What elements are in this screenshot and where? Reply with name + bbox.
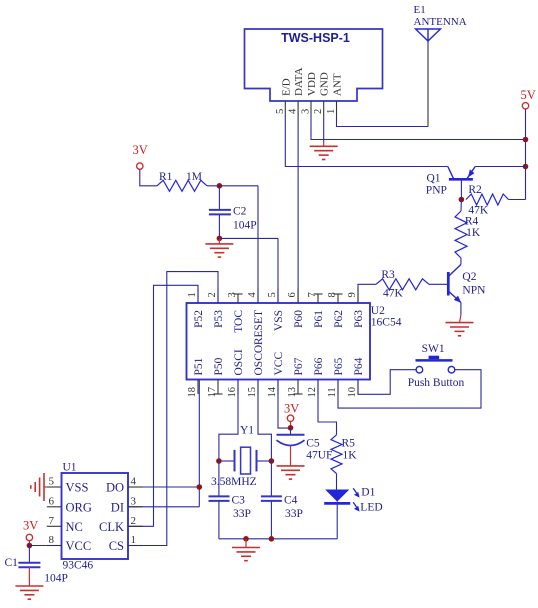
U2 pin 18 stub	[197, 380, 199, 395]
TWS pin number 2	[313, 109, 324, 114]
U2 pin 13 number	[287, 387, 298, 398]
svg-text:3V: 3V	[133, 143, 148, 157]
resistor R1 value	[186, 171, 202, 183]
wire U2 OSCI to crystal	[219, 380, 238, 462]
wire Q1 base down	[460, 179, 462, 199]
U2 pin 2 name P53	[213, 310, 225, 328]
U2 pin 13 stub	[294, 380, 303, 395]
svg-text:4: 4	[288, 108, 299, 114]
svg-text:4: 4	[131, 476, 137, 488]
ground at C5	[277, 466, 305, 479]
TWS pin 1 stub	[336, 101, 338, 118]
junction rail ground	[243, 536, 249, 542]
svg-text:33P: 33P	[233, 508, 251, 520]
svg-text:18: 18	[187, 387, 198, 398]
U2 pin 4 stub	[257, 289, 259, 304]
wire R4 to Q2 collector	[460, 258, 462, 265]
svg-text:7: 7	[307, 292, 318, 297]
wire E/D to Q1 collector	[285, 118, 448, 167]
U1 pin name CLK	[99, 520, 124, 534]
svg-text:Q2: Q2	[462, 271, 476, 283]
svg-text:9: 9	[347, 292, 358, 297]
U1 pin name CS	[109, 539, 124, 553]
wire bottom rail	[219, 538, 337, 540]
wire U2 P63 to R3	[358, 284, 376, 303]
svg-text:47UF: 47UF	[306, 450, 332, 462]
TWS pin number 1	[326, 109, 337, 114]
U1 pin 6 ORG stub	[47, 506, 62, 508]
TWS pin number 3	[301, 109, 312, 114]
IC U1 part number	[63, 560, 94, 572]
power 5V label	[521, 88, 536, 102]
U2 pin 16 stub	[237, 380, 239, 395]
wire R3 to Q2 base	[429, 283, 448, 285]
wire Q2 emitter down	[460, 303, 461, 323]
wire 3V to R1	[140, 169, 157, 186]
U2 pin 18 number	[187, 387, 198, 398]
U2 pin 12 stub	[317, 380, 319, 395]
wire 3V circle to node2	[28, 541, 30, 543]
wire U2 P64 to SW1	[358, 370, 416, 395]
TWS pin number 5	[275, 109, 286, 114]
svg-text:47K: 47K	[383, 288, 404, 300]
U2 pin 10 stub	[357, 380, 359, 395]
TWS pin 4 stub	[297, 101, 299, 118]
TWS pin 2 stub	[323, 101, 325, 118]
resistor R1 zigzag	[157, 180, 207, 191]
wire VDD to 5V rail	[311, 118, 526, 140]
junction crystal left	[216, 458, 222, 464]
svg-text:3.58MHZ: 3.58MHZ	[211, 476, 257, 488]
antenna E1 label	[414, 16, 467, 28]
svg-text:DATA: DATA	[293, 67, 305, 96]
wire U1 DO	[128, 486, 199, 488]
svg-text:104P: 104P	[233, 220, 257, 232]
IC U2 designator	[371, 305, 385, 317]
TWS pin 5 stub	[284, 101, 286, 118]
svg-text:5: 5	[267, 292, 278, 297]
svg-text:ORG: ORG	[66, 500, 92, 514]
ground at U1 VSS	[31, 473, 47, 501]
U1 pin 5 number	[49, 476, 55, 488]
U1 pin name DO	[106, 481, 124, 495]
U2 pin 12 number	[307, 387, 318, 398]
svg-text:U2: U2	[371, 305, 385, 317]
svg-text:C2: C2	[233, 206, 247, 218]
resistor R2 value	[468, 205, 489, 217]
svg-text:2: 2	[207, 292, 218, 297]
svg-text:SW1: SW1	[422, 343, 445, 355]
U2 pin 6 name P60	[293, 310, 305, 328]
svg-text:R4: R4	[465, 216, 479, 228]
svg-text:R5: R5	[342, 438, 356, 450]
svg-text:E1: E1	[414, 4, 426, 16]
U1 pin name ORG	[66, 500, 92, 514]
svg-text:ANTENNA: ANTENNA	[414, 16, 467, 28]
wire 5V rail	[525, 109, 527, 200]
svg-text:P53: P53	[213, 310, 225, 328]
capacitor C5 polarized	[277, 428, 305, 466]
svg-text:P50: P50	[213, 357, 225, 375]
junction C2 ground VSS	[217, 236, 223, 242]
svg-text:R1: R1	[159, 171, 173, 183]
svg-text:P64: P64	[353, 357, 365, 375]
TWS pin name E/D	[280, 78, 292, 96]
U2 pin 4 name RESET	[253, 310, 265, 345]
U2 pin 10 number	[347, 387, 358, 398]
wire U1 DI	[128, 506, 199, 508]
svg-text:CLK: CLK	[99, 520, 124, 534]
RF module label TWS-HSP-1	[281, 31, 350, 45]
crystal Y1 symbol	[219, 447, 272, 474]
wire R1 to RESET	[207, 186, 258, 303]
U2 pin 17 name P50	[213, 357, 225, 375]
capacitor C1 designator	[5, 557, 19, 569]
resistor R3 zigzag	[376, 279, 429, 290]
svg-text:VCC: VCC	[66, 539, 92, 553]
svg-text:7: 7	[49, 515, 55, 527]
IC U2 part number	[371, 316, 402, 328]
svg-text:R2: R2	[468, 184, 482, 196]
transistor Q1 type	[426, 185, 447, 197]
svg-text:8: 8	[49, 534, 55, 546]
svg-text:5V: 5V	[521, 88, 536, 102]
U1 pin 2 number	[131, 515, 137, 527]
svg-text:TWS-HSP-1: TWS-HSP-1	[281, 31, 350, 45]
capacitor C2 designator	[233, 206, 247, 218]
U2 pin 1 stub	[197, 289, 199, 304]
capacitor C1	[18, 546, 40, 587]
U1 pin 4 DO stub	[128, 486, 143, 488]
svg-text:3: 3	[227, 292, 238, 297]
U2 pin 16 number	[227, 387, 238, 398]
wire Q1 emitter to 5V	[475, 166, 525, 168]
svg-text:15: 15	[247, 387, 258, 398]
svg-text:OSCO: OSCO	[253, 345, 265, 376]
svg-text:P65: P65	[333, 357, 345, 375]
power 3V circle bottom	[26, 534, 32, 540]
antenna E1 symbol	[416, 29, 441, 41]
svg-text:VSS: VSS	[273, 310, 285, 331]
wire R2 to 5V rail	[509, 199, 526, 201]
U1 pin 6 number	[49, 495, 55, 507]
svg-text:P51: P51	[193, 357, 205, 375]
U2 pin 6 number	[287, 292, 298, 297]
resistor R5 designator	[342, 438, 356, 450]
power 5V circle	[522, 103, 528, 109]
resistor R1 designator	[159, 171, 173, 183]
capacitor C2	[209, 186, 231, 239]
U1 pin 8 number	[49, 534, 55, 546]
transistor Q2 designator	[462, 271, 476, 283]
svg-text:93C46: 93C46	[63, 560, 94, 572]
U2 pin 7 name P61	[313, 310, 325, 328]
U2 pin 17 number	[207, 387, 218, 398]
U2 pin 7 stub	[314, 294, 323, 303]
U2 pin 4 number	[247, 292, 258, 298]
U2 pin 15 number	[247, 387, 258, 398]
wire U2 P51 DO DI	[198, 380, 200, 507]
resistor R5 zigzag	[331, 435, 342, 474]
svg-text:1K: 1K	[466, 227, 481, 239]
power 3V label mid	[284, 402, 299, 416]
U2 pin 1 name P52	[193, 310, 205, 328]
svg-text:11: 11	[327, 387, 338, 397]
svg-text:DI: DI	[111, 500, 124, 514]
svg-text:E/D: E/D	[280, 78, 292, 96]
U2 pin 3 stub	[234, 294, 243, 303]
wire U2 OSCO to crystal	[258, 380, 271, 462]
U2 pin 5 stub	[277, 289, 279, 304]
wire U2 VCC to 3V	[278, 380, 291, 429]
U2 pin 2 number	[207, 292, 218, 297]
junction 5V-emitter	[523, 164, 529, 170]
junction rail C4	[269, 536, 275, 542]
svg-text:10: 10	[347, 387, 358, 398]
wire ANT to antenna	[337, 118, 429, 127]
crystal Y1 designator	[240, 425, 254, 437]
junction 5V-VDD	[523, 137, 529, 143]
svg-text:C1: C1	[5, 557, 19, 569]
transistor Q2 body	[448, 265, 461, 303]
svg-text:P66: P66	[313, 357, 325, 375]
junction Q1 base R2 R4	[459, 197, 465, 203]
wire 3V circle to node	[290, 422, 292, 426]
resistor R4 zigzag	[455, 200, 467, 259]
svg-text:D1: D1	[361, 487, 375, 499]
svg-text:16C54: 16C54	[371, 316, 402, 328]
resistor R2 zigzag	[466, 194, 509, 205]
LED D1	[324, 488, 359, 511]
svg-text:1: 1	[187, 292, 198, 297]
IC U2 box	[187, 303, 371, 380]
U2 pin 2 stub	[217, 289, 219, 304]
svg-text:16: 16	[227, 387, 238, 398]
svg-text:3V: 3V	[23, 519, 38, 533]
svg-text:2: 2	[131, 515, 137, 527]
U1 pin 3 DI stub	[128, 506, 143, 508]
U1 pin 4 number	[131, 476, 137, 488]
U2 pin 1 number	[187, 292, 198, 297]
wire U2 P52 to U1 CLK	[128, 285, 198, 526]
capacitor C5 value	[306, 450, 332, 462]
svg-text:1M: 1M	[186, 171, 202, 183]
svg-text:3: 3	[301, 109, 312, 114]
U2 pin 14 name VCC	[273, 352, 285, 376]
transistor Q1 body	[448, 167, 475, 180]
U2 pin 6 stub	[297, 289, 299, 304]
svg-text:U1: U1	[63, 462, 77, 474]
svg-text:GND: GND	[319, 72, 331, 96]
antenna E1 designator	[414, 4, 426, 16]
svg-text:VDD: VDD	[306, 72, 318, 96]
resistor R2 designator	[468, 184, 482, 196]
U2 pin 3 name TOC	[233, 310, 245, 333]
U2 pin 11 number	[327, 387, 338, 397]
svg-text:Q1: Q1	[427, 173, 441, 185]
U1 pin 3 number	[131, 495, 137, 507]
svg-text:14: 14	[267, 386, 278, 397]
U2 pin 10 name P64	[353, 357, 365, 375]
U2 pin 16 name OSCI	[233, 349, 245, 375]
svg-text:3V: 3V	[284, 402, 299, 416]
transistor Q1 designator	[427, 173, 441, 185]
svg-text:P62: P62	[333, 310, 345, 328]
capacitor C3 designator	[232, 495, 246, 507]
U2 pin 8 name P62	[333, 310, 345, 328]
svg-text:ANT: ANT	[332, 73, 344, 96]
resistor R3 designator	[381, 269, 395, 281]
junction R1 C2	[217, 183, 223, 189]
ground at C1	[15, 586, 43, 599]
TWS pin name ANT	[332, 73, 344, 96]
svg-text:6: 6	[287, 292, 298, 297]
ground at Q2 emitter	[446, 323, 474, 336]
svg-text:P60: P60	[293, 310, 305, 328]
capacitor C3 value	[233, 508, 251, 520]
svg-text:NPN: NPN	[462, 285, 486, 297]
svg-text:12: 12	[307, 387, 318, 398]
TWS pin number 4	[288, 108, 299, 114]
junction crystal right	[269, 458, 275, 464]
power 3V circle left	[137, 163, 143, 169]
U2 pin 15 stub	[257, 380, 259, 395]
resistor R4 value	[466, 227, 481, 239]
U2 pin 7 number	[307, 292, 318, 297]
U2 pin 8 stub	[334, 294, 343, 303]
U2 pin 3 number	[227, 292, 238, 297]
U1 pin 5 VSS stub	[47, 486, 62, 488]
svg-text:DO: DO	[106, 481, 124, 495]
svg-text:P61: P61	[313, 310, 325, 328]
U2 pin 13 name P67	[293, 357, 305, 375]
wire GND pin down	[323, 118, 325, 147]
U2 pin 9 number	[347, 292, 358, 297]
svg-text:1: 1	[131, 534, 137, 546]
capacitor C4	[261, 461, 282, 539]
U1 pin name NC	[66, 520, 83, 534]
U1 pin 1 number	[131, 534, 137, 546]
svg-text:Y1: Y1	[240, 425, 254, 437]
TWS pin 3 stub	[310, 101, 312, 118]
svg-text:P67: P67	[293, 357, 305, 375]
resistor R3 value	[383, 288, 404, 300]
wire C2 to U2 VSS	[219, 238, 278, 303]
wire U2 P53 to U1 CS	[128, 272, 218, 546]
IC U1 box	[62, 473, 129, 559]
svg-text:6: 6	[49, 495, 55, 507]
svg-text:VCC: VCC	[273, 352, 285, 376]
svg-text:OSCI: OSCI	[233, 349, 245, 375]
U1 pin name VCC	[66, 539, 92, 553]
RF module U3 TWS-HSP-1 outline	[245, 29, 383, 101]
TWS pin name VDD	[306, 72, 318, 96]
transistor Q2 type	[462, 285, 486, 297]
U2 pin 5 number	[267, 292, 278, 297]
power 3V label bottom	[23, 519, 38, 533]
wire antenna lead	[427, 41, 429, 127]
svg-text:4: 4	[247, 292, 258, 298]
wire R5 to LED	[336, 474, 338, 490]
svg-text:C3: C3	[232, 495, 246, 507]
svg-text:17: 17	[207, 387, 218, 398]
crystal Y1 value	[211, 476, 257, 488]
wire DATA to U2 P60	[297, 118, 299, 304]
TWS pin name DATA	[293, 67, 305, 96]
switch SW1 designator	[422, 343, 445, 355]
IC U1 designator	[63, 462, 77, 474]
svg-text:Push Button: Push Button	[408, 377, 465, 389]
U2 pin 11 name P65	[333, 357, 345, 375]
svg-text:P52: P52	[193, 310, 205, 328]
U2 pin 18 name P51	[193, 357, 205, 375]
U2 pin 14 stub	[277, 380, 279, 395]
U2 pin 5 name VSS	[273, 310, 285, 331]
capacitor C4 value	[285, 508, 303, 520]
U1 pin 7 NC stub	[47, 525, 62, 527]
U2 pin 9 name P63	[353, 310, 365, 328]
capacitor C5 designator	[306, 438, 320, 450]
resistor R5 value	[343, 450, 358, 462]
svg-text:2: 2	[313, 109, 324, 114]
svg-text:1: 1	[326, 109, 337, 114]
U1 pin 1 CS stub	[128, 545, 143, 547]
svg-text:1K: 1K	[343, 450, 358, 462]
svg-text:RESET: RESET	[253, 310, 265, 345]
wire U2 P66 to R5	[318, 380, 337, 435]
svg-text:NC: NC	[66, 520, 83, 534]
U1 pin 7 number	[49, 515, 55, 527]
power 3V label left	[133, 143, 148, 157]
svg-text:CS: CS	[109, 539, 124, 553]
U2 pin 15 name OSCO	[253, 345, 265, 376]
ground at C2	[205, 238, 233, 257]
ground at bottom rail	[232, 539, 260, 561]
ground at TWS GND pin	[310, 146, 338, 159]
U2 pin 8 number	[327, 292, 338, 297]
capacitor C2 value	[233, 220, 257, 232]
U2 pin 14 number	[267, 386, 278, 397]
LED D1 label	[360, 502, 382, 514]
capacitor C4 designator	[284, 495, 298, 507]
U2 pin 9 stub	[357, 289, 359, 304]
U2 pin 17 stub	[214, 380, 223, 395]
switch SW1 label	[408, 377, 465, 389]
svg-text:R3: R3	[381, 269, 395, 281]
junction 3V VCC C1	[27, 543, 33, 549]
svg-text:TOC: TOC	[233, 310, 245, 333]
svg-text:C4: C4	[284, 495, 298, 507]
svg-text:3: 3	[131, 495, 137, 507]
svg-text:P63: P63	[353, 310, 365, 328]
svg-text:VSS: VSS	[66, 481, 89, 495]
capacitor C3	[209, 461, 230, 539]
svg-text:LED: LED	[360, 502, 382, 514]
junction 3V C5	[288, 425, 294, 431]
svg-text:13: 13	[287, 387, 298, 398]
svg-text:C5: C5	[306, 438, 320, 450]
U1 pin 8 VCC stub	[47, 545, 62, 547]
svg-text:5: 5	[49, 476, 55, 488]
wire LED to bottom rail	[336, 502, 338, 539]
TWS pin name GND	[319, 72, 331, 96]
svg-text:33P: 33P	[285, 508, 303, 520]
power 3V circle mid	[287, 415, 293, 421]
wire U2 P65 to SW1	[338, 370, 481, 408]
U2 pin 12 name P66	[313, 357, 325, 375]
wire 3V to U1 VCC	[29, 545, 46, 547]
U1 pin name VSS	[66, 481, 89, 495]
